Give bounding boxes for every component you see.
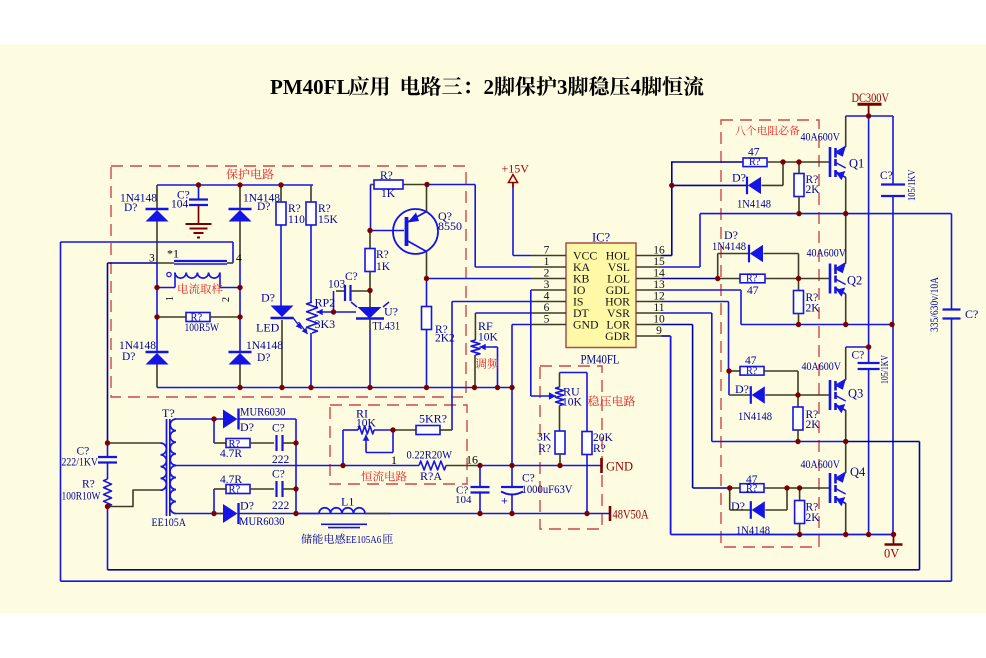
wire VSL from IC xyxy=(662,266,701,268)
junction at 868.6,116 xyxy=(866,113,871,118)
junction at 512,513.5 xyxy=(509,511,514,516)
svg-text:D?: D? xyxy=(724,228,738,242)
IC U? PM40FL box xyxy=(566,243,636,348)
junction at 798,441.5 xyxy=(795,439,800,444)
svg-text:R?: R? xyxy=(380,170,393,182)
resistor R? 2K (Q2) xyxy=(798,279,800,292)
label 调频 xyxy=(475,358,498,369)
junction at 729.7,488 xyxy=(727,485,732,490)
junction at 798,395 xyxy=(795,392,800,397)
svg-text:12: 12 xyxy=(653,291,665,303)
svg-text:Q2: Q2 xyxy=(847,274,862,288)
wire VSR to mid rail 3 xyxy=(662,312,712,314)
eight-resistors dashed box 八个电阻必备 xyxy=(721,120,819,547)
svg-text:C?: C? xyxy=(880,170,893,182)
svg-text:7: 7 xyxy=(544,245,550,257)
inner loop wires xyxy=(108,569,920,571)
wire CT pin3 net xyxy=(108,262,158,264)
svg-text:TL431: TL431 xyxy=(373,319,401,333)
diode D? 1N4148 (Q3) xyxy=(728,371,730,395)
svg-text:C?: C? xyxy=(522,473,535,485)
wire KB to IC pin2 xyxy=(427,278,532,280)
resistor R? 2K (Q1) xyxy=(798,162,800,174)
junction at 370,387.5 xyxy=(367,385,372,390)
wire GDR down to 0V rail xyxy=(662,335,671,337)
junction at 560,465.5 xyxy=(557,463,562,468)
capacitor C? 104 output xyxy=(479,466,481,488)
wire top bus xyxy=(846,115,893,117)
wire CT pin4 net xyxy=(61,241,234,243)
svg-text:100R10W: 100R10W xyxy=(62,491,101,503)
svg-text:10K: 10K xyxy=(562,397,583,409)
svg-text:1: 1 xyxy=(391,453,397,467)
svg-text:1N4148: 1N4148 xyxy=(737,199,771,211)
svg-text:R?: R? xyxy=(229,485,241,496)
resistor R? 20K xyxy=(582,432,592,455)
inductor L1 xyxy=(296,513,319,515)
svg-text:15K: 15K xyxy=(318,214,339,226)
junction at 845.7,441.5 xyxy=(843,439,848,444)
IC right pin stub 0 xyxy=(636,255,662,257)
junction at 282,387.5 xyxy=(279,385,284,390)
IC right pin stub 7 xyxy=(636,335,662,337)
svg-text:40A600V: 40A600V xyxy=(801,459,841,471)
IC right pin stub 3 xyxy=(636,289,662,291)
junction at 893.5,534.5 xyxy=(891,532,896,537)
diode D? 1N4148 bottom-second xyxy=(229,351,252,353)
wire LOL row to Q2 xyxy=(662,278,718,280)
protection ground rail xyxy=(157,387,512,389)
wire DT to RF xyxy=(475,312,531,314)
wire top sense rail xyxy=(157,184,313,186)
svg-text:L1: L1 xyxy=(341,495,354,509)
junction at 798.5,324.5 xyxy=(796,322,801,327)
junction at 157,317 xyxy=(154,314,159,319)
wire GND pin down xyxy=(512,324,531,326)
svg-text:4: 4 xyxy=(631,75,642,99)
svg-text:PM40FL: PM40FL xyxy=(581,353,620,367)
resistor R? 47 (Q3) xyxy=(729,370,740,372)
svg-text:5: 5 xyxy=(544,314,550,326)
junction at 474.5,387.5 xyxy=(472,385,477,390)
IC left pin stub 1 xyxy=(531,266,566,268)
junction at 333.5,312 xyxy=(331,309,336,314)
junction at 198.5,185 xyxy=(196,182,201,187)
snubber R? 4.7R + C? 222 top xyxy=(213,419,215,443)
svg-text:Q3: Q3 xyxy=(848,387,863,401)
svg-text:15: 15 xyxy=(653,256,665,268)
svg-text:MUR6030: MUR6030 xyxy=(239,516,285,528)
svg-text:GND: GND xyxy=(573,318,599,332)
svg-text:D?: D? xyxy=(124,202,137,214)
wire KA feed xyxy=(427,184,475,186)
label 保护电路 xyxy=(226,168,273,179)
sense resistor R?A 0.22R20W xyxy=(176,465,419,467)
voltage-regulation dashed box 稳压电路 xyxy=(540,366,602,529)
svg-text:2: 2 xyxy=(544,268,550,280)
junction at 799.6,534.5 xyxy=(797,532,802,537)
junction at 240,387.5 xyxy=(237,385,242,390)
diode D? 1N4148 (Q2) xyxy=(717,254,719,279)
junction at 214,513.5 xyxy=(211,511,216,516)
svg-text:11: 11 xyxy=(653,302,664,314)
svg-text:Q4: Q4 xyxy=(850,465,866,479)
TL431 U? xyxy=(369,291,371,308)
svg-text:D?: D? xyxy=(261,291,275,305)
svg-text:D?: D? xyxy=(122,351,135,363)
junction at 587,513.5 xyxy=(584,511,589,516)
capacitor C? 335/630v/10A xyxy=(951,214,953,310)
svg-text:4: 4 xyxy=(236,253,242,265)
junction at 427,184.5 xyxy=(424,182,429,187)
potentiometer RU 10K xyxy=(556,387,564,406)
svg-text:40A600V: 40A600V xyxy=(802,361,842,373)
resistor R? 2K (Q3) xyxy=(797,395,799,407)
svg-text:2K2: 2K2 xyxy=(435,333,455,345)
IC left pin stub 4 xyxy=(531,301,566,303)
junction at 240,185 xyxy=(237,182,242,187)
svg-text:1: 1 xyxy=(165,296,176,301)
svg-text:3: 3 xyxy=(149,253,155,265)
junction at 798.5,278.5 xyxy=(796,276,801,281)
IC left pin stub 2 xyxy=(531,278,566,280)
resistor R? 47 (Q2) xyxy=(740,274,765,283)
wire half-bridge mid rail left (VSL) xyxy=(700,213,952,215)
svg-text:6: 6 xyxy=(544,302,550,314)
junction at 296,489 xyxy=(293,486,298,491)
svg-text:100R5W: 100R5W xyxy=(185,322,220,334)
svg-text:R?: R? xyxy=(376,249,389,261)
svg-text:R?: R? xyxy=(746,274,758,285)
svg-text:R?A: R?A xyxy=(420,469,442,483)
wire Q3 gate xyxy=(798,394,830,396)
svg-text:Q1: Q1 xyxy=(849,157,864,171)
wire cap1 down to 0V xyxy=(892,196,894,535)
constant-current dashed box 恒流电路 xyxy=(330,405,467,484)
svg-text:103: 103 xyxy=(328,279,346,291)
wire primary top xyxy=(108,442,161,444)
svg-text:14: 14 xyxy=(653,268,665,280)
junction at 799,162 xyxy=(796,159,801,164)
capacitor C? 103 xyxy=(336,290,345,292)
outer loop wires xyxy=(60,242,62,581)
svg-text:10K: 10K xyxy=(356,418,377,430)
resistor R? 1K top (Q8550 emitter) xyxy=(371,184,375,186)
svg-text:13: 13 xyxy=(653,279,665,291)
capacitor C? 1000uF63V electrolytic xyxy=(511,466,513,488)
svg-text:3: 3 xyxy=(544,279,550,291)
svg-text:10K: 10K xyxy=(478,332,499,344)
junction at 512,465.5 xyxy=(509,463,514,468)
svg-text:335/630v/10A: 335/630v/10A xyxy=(929,276,941,332)
svg-text:2K: 2K xyxy=(806,303,821,315)
svg-text:D?: D? xyxy=(240,420,254,434)
svg-text:D?: D? xyxy=(257,352,270,364)
svg-text:1: 1 xyxy=(544,256,550,268)
rheostat RI 10K xyxy=(343,429,358,431)
svg-text:4.7R: 4.7R xyxy=(220,448,242,460)
IGBT Q1 xyxy=(829,147,832,177)
IGBT Q4 xyxy=(829,473,832,503)
svg-text:GND: GND xyxy=(606,460,633,474)
wire mid rail 2 xyxy=(741,324,892,326)
wire primary bottom xyxy=(108,490,161,507)
svg-text:3K3: 3K3 xyxy=(315,317,336,331)
IGBT Q2 xyxy=(829,264,832,294)
capacitor C? 105/1KV right leg xyxy=(868,347,870,363)
wire mid rail 3 xyxy=(712,441,846,443)
IC left pin stub 3 xyxy=(531,289,566,291)
svg-text:2K: 2K xyxy=(806,419,821,431)
svg-text:48V50A: 48V50A xyxy=(613,508,649,522)
junction at 393,430 xyxy=(390,427,395,432)
svg-text:C?: C? xyxy=(965,307,978,321)
svg-text:3K: 3K xyxy=(537,432,552,444)
junction at 107.5,506.5 xyxy=(105,504,110,509)
svg-text:9: 9 xyxy=(656,325,662,337)
label 稳压电路 xyxy=(588,395,635,406)
junction at 296,443 xyxy=(293,440,298,445)
IC right pin stub 6 xyxy=(636,324,662,326)
capacitor C? 104 with ground xyxy=(198,185,200,199)
svg-text:40A600V: 40A600V xyxy=(801,132,841,144)
svg-text:C?: C? xyxy=(345,271,358,283)
svg-text:105/1KV: 105/1KV xyxy=(879,355,891,384)
rheostat RF 10K 调频 xyxy=(474,313,476,340)
diode D? 1N4148 top-second xyxy=(239,185,241,209)
junction at 240,287.5 xyxy=(237,285,242,290)
port GND xyxy=(600,458,603,473)
svg-text:D?: D? xyxy=(240,499,254,513)
svg-text:2: 2 xyxy=(484,75,495,99)
svg-text:104: 104 xyxy=(455,494,472,506)
svg-text:4: 4 xyxy=(544,291,550,303)
junction at 343,465.5 xyxy=(340,463,345,468)
junction at 281,185 xyxy=(278,182,283,187)
svg-text:1N4148: 1N4148 xyxy=(246,340,283,352)
ground 0V xyxy=(893,535,895,545)
resistor R? 15K xyxy=(310,185,312,202)
transistor Q? 8550 PNP xyxy=(393,209,438,254)
junction at 892,324.5 xyxy=(889,322,894,327)
junction at 799,213.6 xyxy=(796,211,801,216)
junction at 370,290.5 xyxy=(367,288,372,293)
junction at 845.7,324.5 xyxy=(843,322,848,327)
diode D? 1N4148 (Q4) xyxy=(729,488,731,510)
junction at 426.5,278.5 xyxy=(424,276,429,281)
IC right pin stub 1 xyxy=(636,266,662,268)
svg-text:D?: D? xyxy=(731,499,745,513)
wire secondary to rails xyxy=(157,287,175,289)
svg-text:D?: D? xyxy=(735,382,749,396)
svg-text:+: + xyxy=(501,494,508,508)
junction at 783,162 xyxy=(780,159,785,164)
svg-text:D?: D? xyxy=(257,201,270,213)
label 恒流电路 xyxy=(361,471,406,482)
junction at 107.5,443 xyxy=(105,440,110,445)
diode D? 1N4148 (Q1) xyxy=(672,184,747,186)
transformer T? EE105A xyxy=(161,443,167,490)
svg-text:1K: 1K xyxy=(376,261,391,273)
resistor R? 47 (Q1) xyxy=(743,158,767,167)
svg-text:40A600V: 40A600V xyxy=(807,248,847,260)
svg-text:110: 110 xyxy=(288,214,305,226)
diode D? MUR6030 bottom xyxy=(237,503,239,524)
junction at 240,317 xyxy=(237,314,242,319)
snubber C? 222/1KV + R? 100R10W on left rail xyxy=(107,263,109,443)
wire 0V rail xyxy=(671,534,894,536)
svg-text:1K: 1K xyxy=(381,188,396,200)
diode D? MUR6030 top xyxy=(176,418,223,420)
junction at 729,371 xyxy=(726,368,731,373)
svg-text:16: 16 xyxy=(466,453,478,467)
IC left pin stub 6 xyxy=(531,324,566,326)
svg-text:RP2: RP2 xyxy=(315,296,336,310)
junction at 787,488 xyxy=(784,485,789,490)
svg-text:PM40FL: PM40FL xyxy=(270,75,350,99)
capacitor C? 105/1KV left leg xyxy=(892,116,894,185)
svg-text:2K: 2K xyxy=(806,512,821,524)
svg-text:R?: R? xyxy=(746,366,758,377)
junction at 868.6,534.5 xyxy=(866,532,871,537)
protection circuit dashed box 保护电路 xyxy=(111,166,466,397)
resistor R? 2K (Q4) xyxy=(799,488,801,501)
junction at 370,230.5 xyxy=(367,228,372,233)
svg-text:8550: 8550 xyxy=(438,219,462,233)
wire IO to RU wiper xyxy=(530,290,532,396)
svg-text:IC?: IC? xyxy=(592,231,611,245)
svg-text:105/1KV: 105/1KV xyxy=(906,169,918,201)
IC left pin stub 0 xyxy=(531,255,566,257)
current transformer secondary coil 电流取样 xyxy=(175,273,220,279)
potentiometer RP2 3K3 xyxy=(307,302,318,333)
junction at 480,513.5 xyxy=(477,511,482,516)
wire RP2 wiper node xyxy=(330,311,334,313)
resistor R? 100R5W xyxy=(157,316,186,318)
wire rectified output vertical xyxy=(295,419,297,514)
svg-text:0V: 0V xyxy=(884,547,899,561)
svg-text:*1: *1 xyxy=(167,247,179,261)
diode D? 1N4148 bottom-left xyxy=(146,351,169,353)
svg-text:5KR?: 5KR? xyxy=(419,412,447,426)
label 电流取样 xyxy=(178,283,222,294)
svg-text:R?: R? xyxy=(593,443,606,455)
LED arrows xyxy=(293,317,302,329)
svg-text:3: 3 xyxy=(557,75,568,99)
wire LOR from IC to Q4 xyxy=(662,324,693,326)
junction at 214,419 xyxy=(211,416,216,421)
junction at 311,387.5 xyxy=(308,385,313,390)
svg-text:1N4148: 1N4148 xyxy=(736,525,770,537)
junction at 717.7,278.5 xyxy=(715,276,720,281)
port 48V50A xyxy=(609,506,612,521)
wire DC bus down to Q3 xyxy=(868,116,870,347)
IC right pin stub 5 xyxy=(636,312,662,314)
IC right pin stub 2 xyxy=(636,278,662,280)
wire GDL to mid rail 2 xyxy=(662,289,742,291)
svg-text:C?: C? xyxy=(272,469,285,481)
IC right pin stub 4 xyxy=(636,301,662,303)
svg-text:T?: T? xyxy=(162,406,175,420)
svg-text:C?: C? xyxy=(852,350,865,362)
svg-text:222/1KV: 222/1KV xyxy=(62,457,99,469)
svg-text:104: 104 xyxy=(171,199,189,211)
junction at 845.7,534.5 xyxy=(843,532,848,537)
wire HOR from IC to Q3 xyxy=(662,301,729,303)
resistor R? 110 xyxy=(280,185,282,202)
svg-text:16: 16 xyxy=(653,245,665,257)
svg-text:C?: C? xyxy=(272,423,285,435)
svg-text:D?: D? xyxy=(732,171,746,185)
svg-text:R?: R? xyxy=(746,483,758,494)
svg-text:1N4148: 1N4148 xyxy=(738,411,772,423)
current transformer primary bar *1 xyxy=(174,260,227,262)
48V output rail xyxy=(176,513,223,515)
svg-text:GDR: GDR xyxy=(605,329,630,343)
snubber R? 4.7R + C? 222 bottom xyxy=(213,489,215,514)
wire IS to 5KR xyxy=(452,301,531,303)
ground symbol xyxy=(186,223,212,225)
LED D? xyxy=(271,317,294,319)
resistor R? 1K (base) xyxy=(369,231,371,249)
svg-text:2K: 2K xyxy=(806,184,821,196)
svg-text:MUR6030: MUR6030 xyxy=(240,407,286,419)
label 储能电感EE105A6匝 xyxy=(301,533,345,543)
svg-text:R?: R? xyxy=(82,479,95,491)
svg-text:222: 222 xyxy=(272,454,290,466)
svg-text:47: 47 xyxy=(747,285,759,297)
svg-text:+15V: +15V xyxy=(502,162,530,176)
svg-text:U?: U? xyxy=(384,305,398,319)
resistor R? 3K xyxy=(555,431,565,454)
junction at 512,387.5 xyxy=(509,385,514,390)
svg-text:R?: R? xyxy=(749,157,761,168)
junction at 868.6,347 xyxy=(866,344,871,349)
svg-text:1N4148: 1N4148 xyxy=(712,241,746,253)
resistor R? 2K2 xyxy=(426,279,428,307)
svg-text:0.22R20W: 0.22R20W xyxy=(407,448,453,462)
resistor 5KR? xyxy=(393,429,416,431)
svg-text:EE105A6: EE105A6 xyxy=(346,534,382,546)
resistor R? 47 (Q4) xyxy=(730,487,740,489)
svg-text:EE105A: EE105A xyxy=(152,515,187,529)
wire base node xyxy=(371,230,405,232)
svg-text:2: 2 xyxy=(221,297,232,302)
IGBT Q3 xyxy=(829,380,832,410)
junction at 426.5,387.5 xyxy=(424,385,429,390)
junction at 497.5,387.5 xyxy=(495,385,500,390)
junction at 845.7,213.6 xyxy=(843,211,848,216)
junction at 799.6,488 xyxy=(797,485,802,490)
diode D? 1N4148 top-left xyxy=(156,185,158,209)
wire HOL from IC to Q1 gate xyxy=(662,255,672,257)
label 八个电阻必备 xyxy=(735,125,799,135)
junction at 296,513.5 xyxy=(293,511,298,516)
svg-text:10: 10 xyxy=(653,314,665,326)
svg-text:1000uF63V: 1000uF63V xyxy=(522,484,574,496)
junction at 157,287.5 xyxy=(154,285,159,290)
svg-text:222: 222 xyxy=(272,500,290,512)
junction at 671.8,185.4 xyxy=(669,183,674,188)
svg-text:LED: LED xyxy=(256,321,280,335)
IC left pin stub 5 xyxy=(531,312,566,314)
svg-text:R?: R? xyxy=(538,443,551,455)
junction at 480,465.5 xyxy=(477,463,482,468)
